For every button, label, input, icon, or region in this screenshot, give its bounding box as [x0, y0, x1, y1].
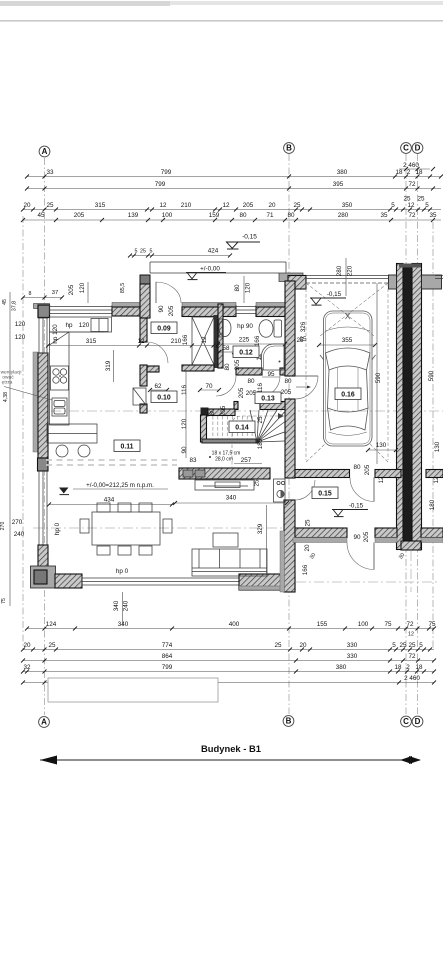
wall living right lower [284, 500, 295, 592]
svg-text:120: 120 [79, 282, 86, 293]
door entry hall arc [347, 543, 374, 570]
section line B [33, 527, 284, 529]
svg-text:90: 90 [181, 446, 188, 454]
svg-text:210: 210 [181, 202, 192, 209]
svg-text:71: 71 [266, 212, 274, 219]
svg-text:240: 240 [14, 531, 25, 538]
svg-text:20: 20 [268, 202, 276, 209]
svg-text:32: 32 [23, 664, 31, 671]
svg-text:20: 20 [304, 544, 311, 552]
dim row2 top [27, 188, 441, 190]
svg-text:83: 83 [189, 457, 197, 464]
svg-text:18: 18 [395, 169, 403, 176]
svg-text:25: 25 [140, 249, 146, 255]
svg-text:72: 72 [408, 212, 416, 219]
svg-text:ętrza: ętrza [2, 380, 13, 386]
wall 0.10 divider [147, 366, 159, 372]
svg-text:hp 0: hp 0 [116, 568, 129, 575]
grid line C [405, 154, 407, 714]
dim row5 bottom [23, 682, 434, 684]
svg-text:340: 340 [113, 600, 120, 611]
svg-text:-0,15: -0,15 [242, 234, 257, 241]
svg-text:120: 120 [181, 418, 188, 429]
kitchen island [47, 424, 97, 443]
door corridor arc [216, 376, 236, 396]
dim bath row [218, 343, 291, 345]
wood stove [274, 479, 286, 502]
svg-text:70: 70 [205, 383, 213, 390]
svg-text:330: 330 [347, 653, 358, 660]
svg-text:25: 25 [257, 416, 264, 424]
svg-text:45: 45 [37, 212, 45, 219]
svg-text:799: 799 [162, 664, 173, 671]
svg-text:799: 799 [155, 181, 166, 188]
svg-text:+/-0,00=212,25 m n.p.m.: +/-0,00=212,25 m n.p.m. [86, 482, 154, 489]
wall bottom hatch right [239, 574, 295, 590]
wall stairs bottom [179, 468, 270, 479]
header rule [0, 20, 443, 22]
svg-text:20: 20 [23, 642, 31, 649]
svg-text:330: 330 [347, 642, 358, 649]
chair left [80, 519, 89, 533]
porch dash h [296, 581, 440, 583]
party wall arm left [389, 275, 397, 289]
svg-text:90: 90 [158, 305, 165, 313]
svg-text:355: 355 [342, 337, 353, 344]
svg-text:12: 12 [159, 202, 167, 209]
door garage side [295, 375, 318, 377]
party wall core [403, 264, 412, 551]
chair top 1 [97, 503, 110, 512]
column top-left corner [34, 304, 50, 309]
wall left gray band [33, 352, 38, 452]
wall garage front corner [279, 273, 303, 282]
svg-text:20: 20 [299, 642, 307, 649]
svg-text:25: 25 [408, 642, 416, 649]
svg-text:2: 2 [406, 664, 410, 671]
room label 0.11 [114, 440, 140, 452]
svg-text:80: 80 [224, 363, 231, 371]
svg-text:350: 350 [342, 202, 353, 209]
dim row1 bottom [27, 628, 434, 630]
svg-text:C: C [403, 717, 409, 726]
svg-text:257: 257 [241, 457, 252, 464]
grid bubble B top [284, 143, 295, 154]
svg-text:205: 205 [74, 212, 85, 219]
svg-text:8: 8 [29, 291, 32, 297]
svg-text:hp: hp [65, 322, 73, 329]
grid bubble A top [39, 146, 50, 157]
svg-text:205: 205 [364, 464, 371, 475]
sofa [192, 549, 267, 576]
wall 0.13 bottom [234, 402, 238, 410]
wall top right segment [182, 303, 236, 308]
kitchen sink [52, 398, 67, 416]
svg-text:5: 5 [391, 202, 395, 209]
svg-text:5: 5 [150, 249, 153, 255]
svg-text:116: 116 [181, 384, 188, 395]
washbasin 0.12 [219, 320, 231, 337]
chair bottom 1 [97, 546, 110, 555]
svg-text:45: 45 [2, 299, 8, 305]
svg-text:326: 326 [300, 321, 307, 332]
svg-text:280: 280 [338, 212, 349, 219]
garage X dash [306, 283, 374, 336]
stair walk line [232, 416, 280, 470]
shaft right wall [214, 315, 219, 368]
svg-text:205: 205 [168, 305, 175, 316]
wall left hatched [38, 353, 48, 458]
window bathroom [236, 306, 256, 308]
stair treads [212, 416, 214, 439]
svg-text:72: 72 [406, 621, 414, 628]
stair fan [250, 410, 257, 442]
svg-text:205: 205 [281, 389, 292, 396]
svg-text:B: B [286, 717, 292, 726]
wall hall bottom right2 [421, 528, 443, 538]
svg-text:280: 280 [336, 265, 343, 276]
svg-text:25: 25 [48, 642, 56, 649]
window bottom living [82, 577, 239, 579]
door garage-hall arc [350, 478, 374, 502]
svg-text:0.13: 0.13 [261, 396, 275, 403]
island stool 1 [56, 445, 68, 457]
svg-text:205: 205 [68, 284, 75, 295]
svg-text:0.16: 0.16 [341, 392, 355, 399]
chair bottom 2 [118, 546, 131, 555]
svg-text:75: 75 [384, 621, 392, 628]
svg-text:hp 0: hp 0 [54, 522, 61, 535]
svg-text:18: 18 [415, 169, 423, 176]
shower 0.12 [262, 344, 285, 370]
svg-text:315: 315 [86, 338, 97, 345]
wall garage bottom [295, 470, 350, 478]
svg-text:205: 205 [220, 405, 227, 416]
svg-text:240: 240 [123, 600, 130, 611]
svg-text:-0,15: -0,15 [327, 291, 342, 298]
svg-text:400: 400 [229, 621, 240, 628]
grid line B [288, 154, 290, 714]
svg-text:2: 2 [407, 169, 411, 176]
chair bottom 3 [139, 546, 152, 555]
wall stub porch left [140, 275, 150, 284]
svg-text:5: 5 [392, 642, 396, 649]
chair top 3 [139, 503, 152, 512]
stove [51, 366, 69, 390]
stair mid wall [202, 439, 258, 443]
svg-text:62: 62 [154, 383, 162, 390]
svg-text:2 460: 2 460 [403, 162, 419, 169]
grid bubble A bottom [39, 717, 50, 728]
svg-text:166: 166 [182, 334, 189, 345]
svg-text:A: A [41, 718, 47, 727]
sideboard [195, 480, 254, 490]
svg-text:315: 315 [95, 202, 106, 209]
stair top wall [208, 409, 235, 416]
coffee table [213, 533, 238, 547]
svg-text:12: 12 [433, 476, 440, 484]
svg-text:205: 205 [243, 202, 254, 209]
wall left lower [38, 545, 48, 568]
svg-text:155: 155 [317, 621, 328, 628]
grid bubble B bottom [283, 716, 294, 727]
svg-text:25: 25 [254, 479, 261, 487]
grid line A [44, 158, 46, 715]
svg-text:340: 340 [226, 495, 237, 502]
svg-text:28,0 cm: 28,0 cm [215, 457, 233, 463]
svg-text:12: 12 [222, 202, 230, 209]
svg-text:424: 424 [208, 248, 219, 255]
svg-text:75: 75 [428, 621, 436, 628]
canopy outline [150, 261, 286, 263]
svg-text:116: 116 [257, 382, 264, 393]
room label 0.15 [312, 487, 338, 499]
svg-text:80: 80 [284, 378, 292, 385]
pier left mid [38, 458, 49, 471]
door 0.10 leaf [133, 388, 146, 405]
window left upper [38, 318, 40, 353]
dining table [92, 512, 160, 545]
svg-text:270: 270 [0, 522, 6, 531]
svg-text:205: 205 [363, 531, 370, 542]
svg-text:329: 329 [257, 523, 264, 534]
svg-text:85,5: 85,5 [120, 283, 126, 293]
wall living right upper [285, 281, 295, 376]
svg-text:120: 120 [15, 334, 26, 341]
svg-text:799: 799 [161, 169, 172, 176]
room label 0.13 [255, 392, 281, 404]
svg-text:319: 319 [105, 360, 112, 371]
room label 0.14 [229, 421, 255, 433]
svg-text:80: 80 [234, 284, 241, 292]
door hall-living arc [295, 480, 315, 500]
door arc 0.09 to kitchen [147, 342, 168, 363]
svg-text:166: 166 [254, 335, 261, 346]
wall hall bottom left [295, 528, 347, 538]
wall bath top right [256, 303, 287, 308]
svg-text:12: 12 [407, 202, 415, 209]
svg-text:130: 130 [434, 441, 441, 452]
party wall cap [399, 264, 421, 268]
svg-text:80: 80 [287, 212, 295, 219]
dim row3 bottom [23, 660, 434, 662]
svg-text:D: D [415, 144, 421, 153]
svg-text:185: 185 [257, 438, 264, 449]
svg-text:380: 380 [336, 664, 347, 671]
grid bubble C top [401, 143, 412, 154]
svg-text:5: 5 [419, 642, 423, 649]
svg-text:18: 18 [394, 664, 402, 671]
svg-text:35: 35 [429, 212, 437, 219]
svg-text:25: 25 [274, 642, 282, 649]
svg-text:80: 80 [353, 464, 361, 471]
svg-text:100: 100 [358, 621, 369, 628]
island stool 2 [78, 445, 90, 457]
shaft bottom wall [182, 365, 214, 371]
grid bubble D bottom [412, 716, 423, 727]
svg-text:37: 37 [52, 290, 58, 296]
svg-text:380: 380 [337, 169, 348, 176]
svg-text:+/-0,00: +/-0,00 [200, 266, 220, 273]
party wall arm right [422, 275, 442, 289]
top toolbar bar [0, 1, 170, 6]
svg-text:D: D [415, 717, 421, 726]
svg-text:37,8: 37,8 [12, 301, 18, 311]
svg-text:12: 12 [137, 338, 145, 345]
stair left wall [201, 415, 207, 442]
svg-text:395: 395 [333, 181, 344, 188]
door arc entry [156, 282, 181, 303]
grid bubble C bottom [401, 716, 412, 727]
svg-text:205: 205 [234, 359, 241, 370]
svg-text:72: 72 [408, 181, 416, 188]
svg-text:120: 120 [79, 322, 90, 329]
svg-text:33: 33 [46, 169, 54, 176]
room label 0.12 [233, 346, 259, 358]
floor dash band 1 [46, 459, 177, 461]
door 0.13 arc [259, 376, 280, 397]
svg-text:A: A [42, 147, 48, 156]
svg-text:4,38: 4,38 [3, 392, 9, 402]
garage clearance dashed [305, 283, 307, 460]
svg-text:72: 72 [408, 653, 416, 660]
svg-text:-0,15: -0,15 [349, 503, 364, 510]
svg-text:159: 159 [209, 212, 220, 219]
svg-text:12: 12 [378, 476, 385, 484]
svg-text:130: 130 [376, 442, 387, 449]
svg-text:hp 90: hp 90 [237, 323, 253, 330]
svg-text:205: 205 [238, 387, 245, 398]
svg-text:220: 220 [347, 265, 354, 276]
wall bottom hatch left [55, 574, 82, 588]
svg-text:0.10: 0.10 [157, 395, 171, 402]
svg-text:100: 100 [162, 212, 173, 219]
grid bubble D top [412, 143, 423, 154]
section line [33, 410, 443, 412]
garage door line [306, 275, 388, 277]
wall 0.12 bottom [236, 368, 262, 375]
floor dash band 2 [46, 464, 177, 466]
party wall foot hatch [401, 541, 421, 550]
svg-text:90: 90 [353, 534, 361, 541]
svg-text:B: B [286, 144, 292, 153]
vent leader [4, 387, 52, 401]
wall bath left [218, 304, 223, 368]
dim row2 bottom [23, 649, 434, 651]
window top kitchen [50, 306, 113, 308]
svg-text:5: 5 [135, 249, 138, 255]
svg-text:120: 120 [15, 321, 26, 328]
svg-text:225: 225 [239, 337, 250, 344]
svg-text:0.09: 0.09 [157, 326, 171, 333]
dim row4 top [23, 219, 441, 221]
svg-text:25: 25 [403, 196, 411, 203]
right dim line [432, 222, 434, 650]
svg-text:120: 120 [245, 282, 252, 293]
svg-text:0.12: 0.12 [239, 350, 253, 357]
svg-text:2 460: 2 460 [404, 675, 420, 682]
svg-text:124: 124 [46, 621, 57, 628]
room label 0.16 [335, 388, 361, 400]
svg-text:340: 340 [118, 621, 129, 628]
svg-text:0.14: 0.14 [235, 425, 249, 432]
svg-text:20: 20 [23, 202, 31, 209]
kitchen counter left [50, 332, 70, 425]
dim kitchen row [48, 345, 218, 347]
room label 0.09 [151, 322, 177, 334]
svg-text:25: 25 [305, 519, 312, 527]
wall hall bottom right [375, 528, 397, 538]
svg-text:80: 80 [239, 212, 247, 219]
grid line D [417, 154, 419, 714]
neighbour wall right top [426, 470, 443, 478]
svg-text:12: 12 [408, 632, 414, 638]
svg-text:774: 774 [162, 642, 173, 649]
car [320, 311, 376, 446]
svg-text:166: 166 [302, 564, 309, 575]
party wall hatch right [412, 264, 422, 550]
svg-text:12: 12 [201, 336, 208, 344]
dim row4 bottom [23, 671, 434, 673]
svg-text:25: 25 [293, 202, 301, 209]
svg-text:0.15: 0.15 [318, 491, 332, 498]
svg-text:58: 58 [222, 345, 230, 352]
svg-text:80: 80 [209, 408, 216, 416]
svg-text:434: 434 [104, 497, 115, 504]
window left lower [38, 471, 40, 545]
left dim line [22, 216, 24, 650]
svg-text:25: 25 [417, 196, 425, 203]
dim row1 top [27, 176, 441, 178]
column bottom-left corner [31, 566, 56, 588]
stair post [201, 408, 209, 417]
svg-text:18: 18 [415, 664, 423, 671]
shaft X box [192, 317, 214, 365]
wall corridor left [140, 318, 147, 342]
svg-text:Budynek - B1: Budynek - B1 [201, 743, 261, 754]
wall top mid [112, 303, 140, 308]
toilet 0.12 [274, 320, 282, 337]
neighbour garage line [435, 275, 443, 277]
svg-text:25: 25 [46, 202, 54, 209]
svg-text:5: 5 [425, 202, 429, 209]
room label 0.10 [151, 391, 177, 403]
dim row3 top [23, 209, 441, 211]
svg-text:75: 75 [1, 598, 7, 604]
porch dash v1 [410, 551, 412, 592]
svg-text:25: 25 [296, 337, 304, 344]
title line [40, 759, 420, 761]
svg-text:864: 864 [162, 653, 173, 660]
kitchen counter top [50, 317, 112, 332]
kitchen appliances [91, 319, 108, 332]
svg-text:25: 25 [399, 642, 407, 649]
chair top 2 [118, 503, 131, 512]
svg-text:590: 590 [375, 372, 382, 383]
svg-text:270: 270 [12, 519, 23, 526]
wall living right mid [285, 399, 295, 478]
svg-text:80: 80 [247, 378, 255, 385]
svg-text:590: 590 [428, 370, 435, 381]
dim 424 porch [130, 255, 230, 257]
svg-text:180: 180 [429, 499, 436, 510]
chair right [163, 519, 172, 533]
svg-text:35: 35 [380, 212, 388, 219]
svg-text:C: C [403, 144, 409, 153]
site rectangle [48, 678, 218, 702]
svg-text:210: 210 [171, 338, 182, 345]
svg-text:139: 139 [128, 212, 139, 219]
